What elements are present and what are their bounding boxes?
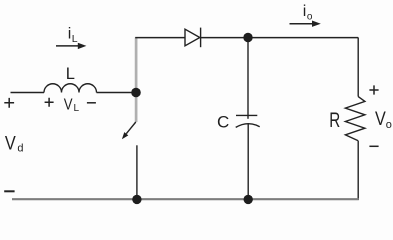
polarity + of Vo (369, 85, 378, 94)
wire: inductor to node (97, 92, 137, 94)
node: diode/capacitor/load junction (243, 33, 252, 42)
diode (185, 29, 200, 46)
polarity + of Vd (left) (4, 98, 14, 108)
current arrow iL head (78, 43, 87, 49)
svg-text:V: V (5, 134, 16, 155)
svg-text:o: o (386, 119, 392, 131)
capacitor bottom lead (247, 124, 249, 200)
wire: load branch top vertical (357, 38, 359, 97)
inductor L (44, 84, 97, 93)
switch blade (126, 122, 136, 134)
capacitor top plate (236, 114, 257, 116)
svg-text:V: V (64, 96, 73, 113)
svg-text:d: d (17, 142, 23, 154)
node: capacitor/bottom rail junction (244, 195, 253, 204)
svg-text:L: L (66, 65, 75, 83)
capacitor top lead (247, 38, 249, 119)
wire: top rail right (node to load corner) (248, 37, 358, 39)
node: switch/bottom rail junction (132, 195, 141, 204)
wire: gray vertical riser from top rail through node to switch pivot (135, 38, 138, 123)
polarity - of Vo (369, 145, 378, 147)
wire: bottom rail (12, 198, 359, 200)
resistor R zigzag (345, 97, 365, 141)
current arrow io head (312, 21, 321, 27)
polarity - of VL (87, 102, 96, 104)
svg-text:V: V (375, 109, 386, 130)
svg-text:R: R (329, 109, 340, 132)
wire: input from Vd+ to inductor (11, 92, 45, 94)
node: inductor/switch/diode junction (131, 88, 141, 98)
svg-text:L: L (74, 103, 80, 114)
svg-text:C: C (217, 113, 229, 132)
wire: top rail left (corner to diode anode) (135, 37, 185, 39)
wire: diode cathode to output node (201, 37, 248, 39)
polarity + of VL (45, 98, 54, 107)
capacitor bottom curved plate (236, 124, 260, 128)
wire: load branch bottom vertical (357, 141, 359, 200)
current arrow io shaft (290, 23, 313, 25)
current arrow iL shaft (56, 45, 79, 47)
switch lower contact wire (136, 145, 138, 200)
svg-text:L: L (72, 33, 78, 45)
polarity - of Vd (bottom left) (4, 190, 14, 192)
switch blade arrowhead (122, 132, 128, 139)
svg-text:i: i (303, 3, 307, 20)
svg-text:o: o (307, 12, 313, 23)
diode cathode bar (200, 28, 202, 48)
